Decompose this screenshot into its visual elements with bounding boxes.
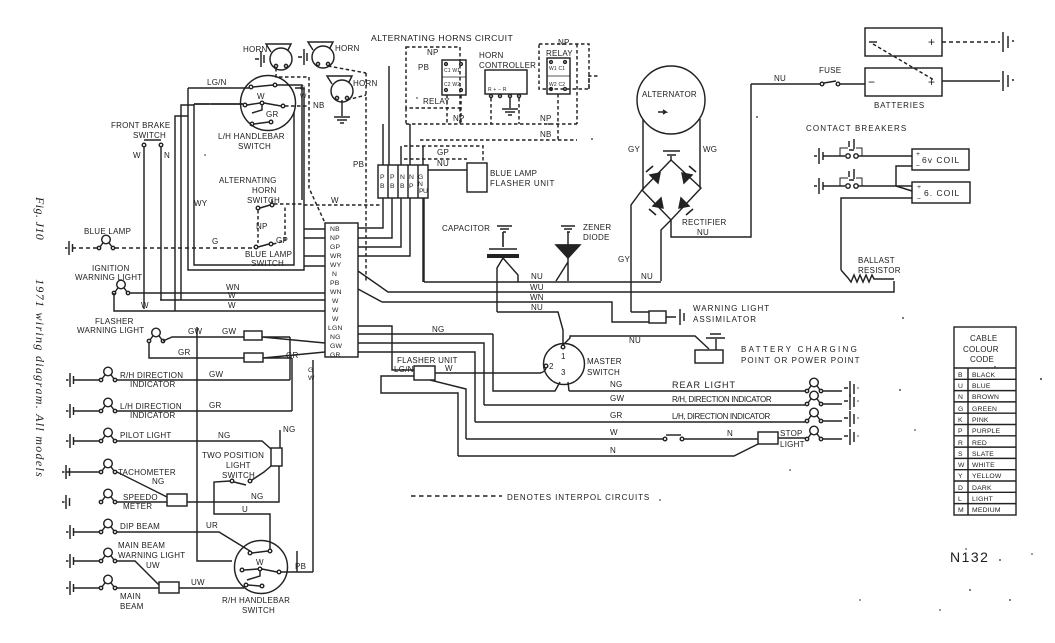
wire GW to R/H indicator <box>73 379 290 381</box>
svg-text:N: N <box>332 271 337 278</box>
wire NG speedo to two-position switch <box>187 466 279 502</box>
svg-text:CODE: CODE <box>970 355 994 364</box>
main beam ground <box>66 581 74 595</box>
svg-text:NB: NB <box>313 101 325 110</box>
svg-text:ALTERNATING: ALTERNATING <box>219 176 277 185</box>
svg-text:BLUE LAMP: BLUE LAMP <box>84 227 131 236</box>
svg-text:W: W <box>445 364 453 373</box>
svg-text:2: 2 <box>549 362 554 371</box>
svg-text:L: L <box>958 496 962 503</box>
svg-text:COLOUR: COLOUR <box>963 345 999 354</box>
svg-text:CONTACT BREAKERS: CONTACT BREAKERS <box>806 124 907 133</box>
warning light assimilator <box>631 311 649 313</box>
blue lamp ground <box>65 241 73 255</box>
svg-text:G: G <box>308 367 314 374</box>
svg-text:DARK: DARK <box>972 485 992 492</box>
svg-text:WU: WU <box>530 283 544 292</box>
svg-text:PB: PB <box>330 280 340 287</box>
front brake switch contacts <box>142 143 146 147</box>
svg-text:W: W <box>332 316 339 323</box>
diode bottom-left <box>653 198 663 208</box>
dashed bus NB <box>420 94 577 140</box>
svg-text:BLUE: BLUE <box>972 383 991 390</box>
lamp tachometer <box>99 459 116 474</box>
zener diode D1 <box>556 232 580 245</box>
svg-text:DIODE: DIODE <box>583 233 610 242</box>
dashed wire GP up from blue lamp switch <box>273 205 285 244</box>
dashed horn wires <box>276 66 366 100</box>
svg-text:MEDIUM: MEDIUM <box>972 507 1001 514</box>
svg-text:CABLE: CABLE <box>970 334 997 343</box>
svg-text:POINT OR POWER POINT: POINT OR POWER POINT <box>741 356 861 365</box>
svg-text:M: M <box>958 507 964 514</box>
svg-text:N: N <box>418 181 423 188</box>
svg-text:LG/N: LG/N <box>207 78 227 87</box>
wire NU bus <box>424 198 661 282</box>
svg-text:NP: NP <box>453 114 465 123</box>
wire W vertical long <box>197 327 232 561</box>
wire WN to assimilator <box>358 289 649 322</box>
wire GW R/H direction <box>484 404 805 406</box>
svg-text:WY: WY <box>330 262 342 269</box>
svg-text:GW: GW <box>222 327 236 336</box>
svg-text:6v COIL: 6v COIL <box>922 155 960 165</box>
flasher unit FU1 <box>414 366 435 380</box>
svg-text:NP: NP <box>558 38 570 47</box>
svg-text:NU: NU <box>437 159 449 168</box>
L/H direction indicator ground <box>66 404 74 418</box>
wires from top connector to strip <box>358 198 423 282</box>
svg-text:P: P <box>390 174 395 181</box>
top connector strip PB PB NB NP GN/PU <box>378 165 428 198</box>
svg-text:N: N <box>400 174 405 181</box>
svg-text:C1 W1: C1 W1 <box>444 68 460 74</box>
svg-text:TWO POSITION: TWO POSITION <box>202 451 264 460</box>
svg-text:W2 C2: W2 C2 <box>549 82 565 88</box>
wire NG pilot to two position switch <box>73 441 271 449</box>
svg-text:PURPLE: PURPLE <box>972 428 1001 435</box>
lamp flasher warning light <box>147 328 164 343</box>
svg-text:GR: GR <box>266 110 279 119</box>
svg-text:G: G <box>958 406 964 413</box>
dip beam ground <box>66 525 74 539</box>
svg-text:PB: PB <box>418 63 429 72</box>
diode top-right <box>682 173 692 183</box>
svg-text:SWITCH: SWITCH <box>238 142 271 151</box>
svg-text:SLATE: SLATE <box>972 451 994 458</box>
lamp main beam <box>99 575 116 590</box>
wire coil2 to ballast riser <box>841 198 912 270</box>
speedo ground <box>62 495 70 509</box>
contacts top <box>248 551 252 555</box>
svg-text:WARNING LIGHT: WARNING LIGHT <box>118 551 185 560</box>
wire W ignition left leg down and right <box>114 293 325 311</box>
svg-text:N: N <box>958 394 963 401</box>
contact breaker CB2 <box>814 178 823 194</box>
svg-text:N: N <box>409 174 414 181</box>
svg-text:+: + <box>916 151 920 158</box>
wire GR from flasher left leg down then right <box>149 343 325 358</box>
contacts bottom <box>244 583 248 587</box>
wire GY rectifier down <box>631 190 642 312</box>
svg-text:W: W <box>331 196 339 205</box>
svg-text:RELAY: RELAY <box>423 97 450 106</box>
svg-text:W: W <box>257 92 265 101</box>
svg-text:DENOTES INTERPOL CIRCUITS: DENOTES INTERPOL CIRCUITS <box>507 493 650 502</box>
wire CB2 to coil 2 <box>858 185 912 187</box>
svg-text:ASSIMILATOR: ASSIMILATOR <box>693 315 757 324</box>
wire from big box to strip rows <box>304 229 325 266</box>
contacts middle <box>240 568 244 572</box>
svg-text:W: W <box>332 298 339 305</box>
svg-text:GW: GW <box>330 343 342 350</box>
R/H direction indicator ground <box>66 373 74 387</box>
svg-text:CONTROLLER: CONTROLLER <box>479 61 536 70</box>
svg-text:WR: WR <box>330 253 342 260</box>
svg-text:NG: NG <box>152 477 165 486</box>
zener ground <box>561 226 575 232</box>
svg-text:BLUE LAMP: BLUE LAMP <box>245 250 292 259</box>
svg-text:U: U <box>423 188 428 195</box>
wire UR dip beam to R/H handlebar switch <box>73 532 250 551</box>
svg-text:W: W <box>256 558 264 567</box>
wire GW strip down to R/H dir run <box>358 343 484 405</box>
wire N row <box>458 444 758 456</box>
svg-text:ZENER: ZENER <box>583 223 611 232</box>
svg-text:HORN: HORN <box>252 186 277 195</box>
svg-text:GP: GP <box>437 148 449 157</box>
svg-text:TACHOMETER: TACHOMETER <box>118 468 176 477</box>
wire W from front brake down <box>143 147 145 309</box>
svg-text:+: + <box>928 35 935 49</box>
svg-text:UW: UW <box>191 578 205 587</box>
wire GW from flasher lamp through connector to strip <box>163 337 325 343</box>
svg-text:NB: NB <box>330 226 340 233</box>
svg-text:GY: GY <box>618 255 630 264</box>
svg-text:LIGHT: LIGHT <box>226 461 251 470</box>
wire UW warning to main beam connector <box>73 561 159 585</box>
connector GR <box>244 353 263 362</box>
svg-text:LIGHT: LIGHT <box>972 496 993 503</box>
svg-text:NG: NG <box>218 431 231 440</box>
connector GW <box>244 331 262 340</box>
svg-text:NU: NU <box>629 336 641 345</box>
wire PB from switch to riser <box>281 551 313 572</box>
svg-text:NU: NU <box>531 303 543 312</box>
svg-text:R/H DIRECTION: R/H DIRECTION <box>120 371 183 380</box>
svg-text:MAIN BEAM: MAIN BEAM <box>118 541 165 550</box>
svg-text:WARNING LIGHT: WARNING LIGHT <box>693 304 770 313</box>
svg-text:INDICATOR: INDICATOR <box>130 411 176 420</box>
wire U from switch to R/H handlebar <box>214 481 270 549</box>
svg-text:GW: GW <box>188 327 202 336</box>
lamp dip beam <box>99 519 116 534</box>
svg-text:ALTERNATING HORNS CIRCUIT: ALTERNATING HORNS CIRCUIT <box>371 33 513 43</box>
svg-text:K: K <box>958 417 963 424</box>
svg-text:SWITCH: SWITCH <box>242 606 275 615</box>
svg-text:N: N <box>727 429 733 438</box>
svg-text:NG: NG <box>610 380 623 389</box>
svg-text:1971 wiring diagram. All mode: 1971 wiring diagram. All models <box>33 279 47 478</box>
wire W stop light <box>466 438 758 440</box>
svg-text:G: G <box>418 174 424 181</box>
svg-text:G: G <box>212 237 218 246</box>
wire GR strip down to L/H dir run <box>358 352 475 422</box>
svg-text:SPEEDO: SPEEDO <box>123 493 158 502</box>
svg-text:METER: METER <box>123 502 152 511</box>
svg-text:HORN: HORN <box>335 44 360 53</box>
svg-text:CAPACITOR: CAPACITOR <box>442 224 490 233</box>
lamp L/H direction indicator <box>99 398 116 413</box>
wire from switch left lower down <box>175 116 188 311</box>
wire NG tacho diagonal to speedo connector <box>66 472 167 497</box>
dashed box relay 1 <box>406 47 460 108</box>
lamp speedo meter <box>99 489 116 504</box>
horn H3 <box>327 76 378 102</box>
ground below horn H3 <box>334 100 350 123</box>
svg-text:NG: NG <box>283 425 296 434</box>
svg-text:MAIN: MAIN <box>120 592 141 601</box>
svg-text:MASTER: MASTER <box>587 357 622 366</box>
svg-text:NG: NG <box>251 492 264 501</box>
wire GW from switch right going down <box>277 85 302 200</box>
wire NU rectifier to bus <box>661 220 671 281</box>
lamp BLUE LAMP <box>97 235 114 250</box>
dashed bus NP <box>406 44 599 124</box>
ground battery B1 <box>1003 32 1014 52</box>
stator wires <box>643 119 700 190</box>
vertical GW wire <box>289 337 291 380</box>
wire NU rectifier to fuse riser <box>671 84 751 237</box>
svg-text:W: W <box>228 291 236 300</box>
horn H1 <box>243 44 292 70</box>
svg-text:WARNING LIGHT: WARNING LIGHT <box>77 326 144 335</box>
wire WN from ignition lamp to strip <box>129 292 325 294</box>
svg-text:W: W <box>308 375 315 382</box>
wire NU master switch to battery charging point <box>563 336 709 349</box>
svg-text:NP: NP <box>427 48 439 57</box>
relay RL1 <box>442 60 466 95</box>
wire NU to flasher unit <box>428 169 467 171</box>
horn H2 <box>298 42 360 68</box>
svg-text:FLASHER: FLASHER <box>95 317 134 326</box>
svg-text:W: W <box>332 307 339 314</box>
switch contacts bottom <box>250 122 254 126</box>
svg-text:UR: UR <box>206 521 218 530</box>
svg-text:R: R <box>958 440 963 447</box>
lamp R/H direction indicator <box>99 367 116 382</box>
svg-text:N132: N132 <box>950 549 989 565</box>
svg-text:6. COIL: 6. COIL <box>924 188 960 198</box>
ground under alternator <box>663 151 680 155</box>
svg-text:FUSE: FUSE <box>819 66 841 75</box>
blue lamp flasher unit <box>467 163 487 192</box>
svg-text:GW: GW <box>610 394 624 403</box>
svg-text:SWITCH: SWITCH <box>133 131 166 140</box>
wire WU to ballast <box>358 271 894 292</box>
ground battery B2 <box>1003 71 1014 91</box>
lamp R/H direction indicator rear <box>805 391 822 406</box>
svg-text:HORN: HORN <box>243 45 268 54</box>
dashed wire PB vertical <box>365 73 367 282</box>
svg-text:W: W <box>228 301 236 310</box>
ignition coil 1 <box>912 149 969 170</box>
capacitor ground <box>497 226 512 232</box>
horn controller U1 <box>485 70 527 94</box>
svg-text:WARNING LIGHT: WARNING LIGHT <box>75 273 142 282</box>
svg-text:GR: GR <box>330 352 341 359</box>
svg-text:U: U <box>958 383 963 390</box>
vertical GR wire <box>291 358 293 411</box>
svg-text:−: − <box>868 75 875 89</box>
pilot light ground <box>66 434 74 448</box>
svg-text:NP: NP <box>330 235 340 242</box>
svg-text:GY: GY <box>628 145 640 154</box>
lamp L/H direction indicator rear <box>805 408 822 423</box>
svg-text:LIGHT: LIGHT <box>780 440 805 449</box>
svg-text:GP: GP <box>276 236 288 245</box>
wire W middle <box>160 299 325 301</box>
svg-text:U: U <box>242 505 248 514</box>
svg-text:PINK: PINK <box>972 417 989 424</box>
contact breaker CB1 <box>814 148 823 164</box>
svg-text:RED: RED <box>972 440 987 447</box>
svg-text:ALTERNATOR: ALTERNATOR <box>642 90 697 99</box>
wire UW main beam to R/H handlebar switch <box>179 587 244 589</box>
svg-text:SWITCH: SWITCH <box>587 368 620 377</box>
svg-text:B: B <box>390 183 395 190</box>
svg-text:B: B <box>958 372 963 379</box>
dashed wire W across <box>274 204 380 205</box>
svg-text:Y: Y <box>958 473 963 480</box>
svg-text:W: W <box>133 151 141 160</box>
svg-text:GR: GR <box>610 411 623 420</box>
svg-text:1: 1 <box>561 352 566 361</box>
svg-text:N: N <box>164 151 170 160</box>
svg-text:REAR LIGHT: REAR LIGHT <box>672 380 736 390</box>
svg-text:RELAY: RELAY <box>546 49 573 58</box>
wire LGN strip to flasher unit <box>358 326 414 370</box>
svg-text:NB: NB <box>540 130 552 139</box>
svg-text:PILOT LIGHT: PILOT LIGHT <box>120 431 172 440</box>
svg-text:NG: NG <box>330 334 341 341</box>
svg-text:RECTIFIER: RECTIFIER <box>682 218 726 227</box>
svg-text:WHITE: WHITE <box>972 462 995 469</box>
inner box <box>194 104 294 265</box>
svg-text:WY: WY <box>194 199 208 208</box>
svg-text:W: W <box>610 428 618 437</box>
wire NG master switch to rear light run <box>493 334 569 391</box>
lamp stop light <box>805 426 822 441</box>
dashed link battery B1 to B2 <box>873 44 934 80</box>
svg-text:B: B <box>380 183 385 190</box>
svg-text:FLASHER UNIT: FLASHER UNIT <box>490 179 555 188</box>
svg-text:−: − <box>917 196 921 203</box>
scan specks <box>204 97 1042 611</box>
capacitor over CB1 <box>840 148 862 156</box>
svg-text:GREEN: GREEN <box>972 406 997 413</box>
svg-text:R/H, DIRECTION INDICATOR: R/H, DIRECTION INDICATOR <box>672 395 772 404</box>
wire G dashed from ground to blue lamp switch <box>72 247 254 249</box>
wire NU to master switch <box>497 312 563 345</box>
svg-text:SWITCH: SWITCH <box>251 259 284 268</box>
svg-text:HORN: HORN <box>479 51 504 60</box>
wire NG strip to master switch 2 <box>358 333 493 335</box>
svg-text:STOP: STOP <box>780 429 803 438</box>
svg-text:BLACK: BLACK <box>972 372 996 379</box>
battery B1 <box>865 28 942 56</box>
svg-text:P: P <box>380 174 385 181</box>
svg-text:RESISTOR: RESISTOR <box>858 266 901 275</box>
svg-text:C2 W2: C2 W2 <box>444 82 460 88</box>
wire battery B2 to ground <box>942 80 1000 82</box>
svg-text:FRONT BRAKE: FRONT BRAKE <box>111 121 171 130</box>
main beam warning ground <box>66 554 74 568</box>
battery charging point <box>695 350 723 363</box>
relay RL2 <box>547 58 570 94</box>
wire battery B1 to ground <box>942 41 1000 43</box>
battery B2 <box>865 68 942 96</box>
svg-text:INDICATOR: INDICATOR <box>130 380 176 389</box>
svg-text:NU: NU <box>641 272 653 281</box>
svg-text:L/H DIRECTION: L/H DIRECTION <box>120 402 182 411</box>
svg-text:GR: GR <box>209 401 222 410</box>
svg-text:BALLAST: BALLAST <box>858 256 895 265</box>
fuse F1 <box>820 82 824 86</box>
wire coil1 to coil2 <box>896 166 912 191</box>
svg-text:R/H HANDLEBAR: R/H HANDLEBAR <box>222 596 290 605</box>
svg-text:NU: NU <box>531 272 543 281</box>
svg-text:IGNITION: IGNITION <box>92 264 130 273</box>
two position switch box <box>271 448 282 466</box>
svg-text:L/H HANDLEBAR: L/H HANDLEBAR <box>218 132 285 141</box>
wire W flasher unit down to stop light run <box>430 380 466 439</box>
wire N flasher unit down to N run <box>381 376 458 456</box>
connector on speedo wire <box>117 501 167 503</box>
svg-text:W1 C1: W1 C1 <box>549 66 565 72</box>
svg-text:L/H, DIRECTION INDICATOR: L/H, DIRECTION INDICATOR <box>672 412 771 421</box>
svg-text:P: P <box>958 428 963 435</box>
svg-text:NU: NU <box>774 74 786 83</box>
svg-text:3: 3 <box>561 368 566 377</box>
lamp rear light <box>805 378 822 393</box>
ground below horn controller <box>502 98 518 115</box>
svg-text:NG: NG <box>432 325 445 334</box>
dashed box relay 2 <box>539 44 589 89</box>
stop light box <box>758 432 778 444</box>
blue lamp switch contacts <box>254 245 258 249</box>
svg-text:P: P <box>409 183 414 190</box>
svg-text:BROWN: BROWN <box>972 394 999 401</box>
connector on main beam wire <box>73 587 159 589</box>
ignition coil 2 <box>912 182 970 203</box>
svg-text:GP: GP <box>330 244 340 251</box>
svg-text:UW: UW <box>146 561 160 570</box>
svg-text:WN: WN <box>530 293 544 302</box>
wire W flasher unit to master switch <box>435 368 546 373</box>
svg-text:R + − R: R + − R <box>488 87 507 93</box>
svg-text:D: D <box>958 485 963 492</box>
diode top-left <box>650 173 660 183</box>
svg-text:PB: PB <box>353 160 364 169</box>
outer box <box>188 88 304 270</box>
svg-text:Fig. J10: Fig. J10 <box>33 196 47 240</box>
wires into top connector <box>383 66 423 165</box>
wire GR L/H direction <box>475 421 805 423</box>
svg-text:BLUE LAMP: BLUE LAMP <box>490 169 537 178</box>
wire N from front brake down <box>160 147 162 300</box>
svg-text:LGN: LGN <box>328 325 343 332</box>
